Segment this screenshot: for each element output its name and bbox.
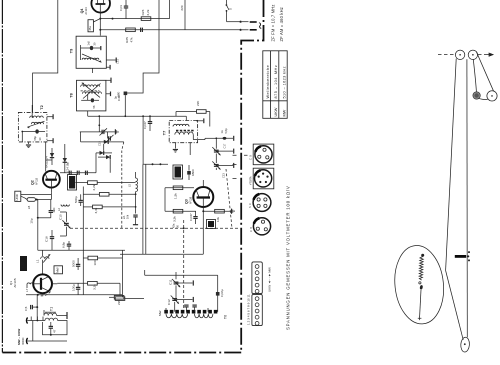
svg-text:510 – 1623 kHz: 510 – 1623 kHz [282, 66, 286, 98]
svg-text:500p: 500p [74, 196, 78, 203]
svg-text:AF116: AF116 [190, 196, 193, 204]
table Wellenbereiche [263, 51, 287, 119]
svg-text:C16: C16 [45, 236, 49, 242]
motor shaft knurled [473, 92, 480, 99]
capacitor C6047 [148, 116, 152, 131]
antenna terminal 1 [26, 318, 27, 324]
wire T2 right stubs [47, 114, 53, 143]
antenna terminal 2 [26, 338, 27, 344]
svg-text:AF115: AF115 [36, 177, 39, 185]
svg-text:UKW: UKW [15, 194, 19, 201]
node Q4a [99, 18, 101, 20]
cord right long [466, 59, 468, 337]
svg-text:R23: R23 [141, 9, 145, 15]
trimmer C11 [172, 272, 193, 299]
svg-text:T1: T1 [50, 307, 54, 311]
svg-text:T2: T2 [40, 105, 44, 109]
wire bus y250.3 [38, 249, 125, 251]
svg-text:Wellenbereiche: Wellenbereiche [266, 65, 270, 99]
chassis border bottom [2, 352, 241, 354]
svg-text:C13: C13 [222, 173, 226, 178]
svg-text:1A: 1A [220, 130, 224, 133]
node L8 [36, 199, 38, 201]
svg-text:1 2 3 4 5 6 7 8 9 10 11: 1 2 3 4 5 6 7 8 9 10 11 [247, 294, 251, 325]
node mains A [240, 21, 242, 23]
boxed label MW [54, 266, 63, 274]
svg-text:Q2: Q2 [31, 180, 35, 185]
svg-text:C17: C17 [223, 143, 227, 148]
cord P2 to shaft [473, 59, 476, 91]
svg-text:2A: 2A [122, 216, 126, 219]
svg-text:0,01: 0,01 [119, 5, 123, 11]
connector strip lower [252, 294, 262, 325]
node bus1 [124, 115, 126, 117]
dial axis dashed [438, 54, 454, 56]
svg-text:220: 220 [196, 101, 200, 106]
svg-text:5,6p: 5,6p [224, 128, 228, 134]
capacitor C30 [124, 92, 128, 96]
svg-text:S C: S C [249, 203, 252, 208]
node ant3 [37, 320, 39, 322]
wire v83.3 [82, 187, 84, 295]
svg-text:1,5k: 1,5k [174, 193, 178, 199]
resistor R3k3b [173, 209, 183, 213]
pulley P2 [468, 50, 477, 59]
wire y211.2 right [203, 210, 230, 212]
wire bus y116.2 [88, 115, 187, 117]
svg-text:3,3k: 3,3k [93, 284, 97, 290]
boxed label dark ZF [173, 165, 183, 179]
wire vertical x169.5 [169, 0, 171, 19]
dashed shield v [122, 142, 124, 228]
node ant [37, 294, 39, 296]
node mains B [240, 29, 242, 31]
resistor Rleft edge [115, 297, 144, 301]
svg-text:3,3k: 3,3k [173, 216, 177, 222]
wire T9 right pin [106, 58, 116, 63]
wire C30 down to bus [124, 95, 126, 116]
resistor R220 [176, 110, 210, 117]
node mech [183, 227, 185, 229]
wire y21.7 [227, 21, 241, 23]
wire staircase from top [125, 0, 159, 93]
wire T2 to D4 [46, 159, 52, 161]
trimmer C15 [100, 128, 108, 135]
trimmer C12 [171, 296, 194, 312]
trimmer C14 [106, 132, 114, 142]
capacitor C100u [76, 283, 80, 294]
drive drum ellipse [460, 337, 470, 352]
transformer T2 [18, 105, 47, 142]
svg-text:C31: C31 [116, 59, 120, 64]
svg-text:6,8p: 6,8p [62, 242, 66, 248]
wire v143 down [142, 116, 144, 164]
node bus4 [149, 115, 151, 117]
svg-text:3,3k: 3,3k [94, 207, 98, 213]
svg-text:UKW: UKW [274, 107, 278, 116]
capacitor C16 [50, 230, 54, 250]
wire v122.4 lower [121, 250, 123, 297]
wire switch down [226, 12, 228, 22]
spring end hook [419, 282, 421, 284]
svg-text:C11: C11 [169, 279, 173, 285]
wire T7 to trimmers [193, 139, 205, 141]
transistor Q1 [33, 274, 57, 293]
wire Q3 emitter down [202, 207, 204, 254]
boxed label 45a [88, 20, 94, 32]
svg-text:C B: C B [250, 227, 253, 232]
capacitor C047b [149, 116, 151, 122]
wire y187.8 [165, 187, 194, 189]
svg-text:10p: 10p [30, 218, 34, 223]
svg-text:C14 18p: C14 18p [66, 162, 70, 172]
cord end mark [418, 317, 422, 321]
wire y164.2 nodes [143, 163, 168, 165]
wire v37.8 [37, 200, 39, 251]
spring coil [419, 257, 423, 281]
svg-text:56p: 56p [33, 136, 37, 141]
cord P3 to shaft [479, 98, 488, 99]
cord in detail [420, 290, 421, 317]
svg-text:0,5: 0,5 [24, 306, 28, 311]
svg-text:MW: MW [282, 109, 286, 116]
svg-text:0,02μ: 0,02μ [220, 289, 224, 297]
diode D5 vertical [63, 144, 67, 173]
svg-text:L1: L1 [36, 259, 40, 263]
svg-text:680: 680 [117, 92, 121, 97]
node j1 [37, 217, 39, 219]
cord left long [446, 59, 457, 271]
svg-text:100μ: 100μ [72, 284, 76, 291]
svg-text:MD: MD [52, 207, 56, 213]
wire vertical x185 [184, 0, 186, 30]
capacitor C047c [193, 211, 197, 224]
svg-text:S: S [229, 8, 233, 10]
wire Q3 top [202, 180, 204, 187]
mech dashes C13 [226, 169, 232, 228]
diode D4 [50, 148, 54, 165]
DIN socket 3 [253, 194, 271, 212]
wire T7 top stub [196, 118, 203, 123]
boxed label dark AM [68, 175, 77, 191]
svg-text:#TO/TA: #TO/TA [250, 176, 253, 185]
DIN socket 1 [255, 146, 272, 163]
capacitor C29 [141, 28, 143, 32]
svg-text:T7: T7 [163, 131, 167, 135]
boxed label L23 [20, 256, 27, 271]
wire C10 top [60, 212, 66, 236]
svg-text:T9: T9 [70, 49, 74, 53]
mains prong 2 [242, 29, 257, 31]
resistor R23 [141, 17, 151, 21]
boxed label dark ZF2 [207, 220, 216, 229]
wire y275.2 [145, 270, 218, 312]
node bus3 [98, 115, 100, 117]
DIN socket 4 [253, 218, 270, 235]
wire top-left vertical [33, 0, 58, 112]
wire v80.6 [80, 132, 82, 142]
diode D3 [98, 155, 110, 159]
wire v145.8 [145, 164, 147, 254]
capacitor C02 [216, 292, 220, 296]
transistor Q2 [43, 171, 60, 192]
diode D6 [104, 140, 108, 144]
capacitor 6.8p [67, 241, 71, 250]
svg-text:C B: C B [250, 155, 253, 160]
ground R10k [230, 209, 234, 214]
svg-text:0,047: 0,047 [143, 121, 147, 129]
svg-text:AF114: AF114 [85, 7, 88, 15]
svg-text:ZF FM = 10,7 MHz: ZF FM = 10,7 MHz [270, 4, 275, 41]
T6 winding 1 [166, 314, 188, 318]
shield arc Q1 [41, 292, 51, 296]
node Q4b [99, 29, 101, 31]
wire D2 links [96, 144, 110, 173]
node bus2 [142, 115, 144, 117]
capacitor C5000 [76, 258, 80, 270]
svg-text:45a: 45a [88, 26, 92, 31]
wire v120 [119, 283, 121, 294]
svg-text:C12: C12 [167, 299, 171, 305]
wire bus y18.6 [100, 18, 169, 20]
mains prong 1 [242, 21, 257, 23]
svg-text:2,2k: 2,2k [146, 9, 150, 15]
capacitor C6800 [187, 165, 191, 180]
resistor R10k [215, 209, 225, 213]
DIN socket 2 box [253, 168, 274, 189]
svg-text:MW: MW [56, 267, 60, 273]
svg-text:10k: 10k [216, 217, 220, 222]
spring end bead [419, 285, 423, 290]
svg-text:L 23: L 23 [21, 262, 25, 268]
wire Q2 collector [45, 160, 47, 172]
wire UKW to Q2 [21, 194, 52, 196]
resistor R9 [83, 256, 122, 260]
pointer clip [467, 251, 470, 261]
wire v165 bracket [164, 188, 166, 211]
inductor L8 [21, 196, 52, 201]
svg-text:MW: MW [158, 310, 162, 316]
pin marks strip [31, 317, 43, 321]
boxed label UKW [15, 191, 21, 201]
DIN socket 2 [255, 170, 272, 187]
capacitor 5p6 [215, 136, 233, 141]
capacitor ant [31, 305, 38, 309]
svg-text:1n5: 1n5 [87, 41, 91, 46]
switch S [226, 0, 230, 12]
wire Q2 emitter down [50, 192, 52, 199]
capacitor C47 [49, 322, 53, 336]
transformer T7 [169, 121, 197, 156]
svg-text:AF105: AF105 [13, 278, 17, 287]
wire T8 right pin top [106, 78, 111, 83]
svg-text:0,047: 0,047 [189, 213, 193, 221]
dial axis arrow [487, 53, 493, 56]
drum center dot [464, 343, 466, 345]
resistor R25 [126, 28, 136, 32]
inductor L1 [41, 250, 51, 274]
transistor Q3 [193, 187, 213, 207]
svg-text:SPANNUNGEN GEMESSEN MIT VOL: SPANNUNGEN GEMESSEN MIT VOLTMETER 100 kΩ… [286, 185, 291, 330]
connector strip upper [252, 262, 262, 294]
cord P2 to P3 outer [476, 52, 493, 92]
svg-text:C15: C15 [98, 141, 102, 146]
transformer T1 secondary [43, 318, 68, 335]
mech link dashed horizontal [70, 227, 240, 229]
svg-text:875 – 104 MHz: 875 – 104 MHz [274, 65, 278, 99]
resistor R7 [83, 193, 136, 197]
ground T2 [26, 145, 31, 148]
svg-text:L5: L5 [128, 183, 132, 187]
trimmer C17 [212, 138, 233, 163]
inductor L5 [136, 172, 138, 214]
svg-text:5000: 5000 [72, 260, 76, 267]
detail ellipse spring [391, 243, 447, 326]
wire label diag to node [93, 19, 100, 22]
capacitor C9 [38, 200, 53, 218]
T6 winding stubs [166, 307, 208, 312]
mech link dashed vertical [183, 220, 185, 312]
transformer T1 primary [44, 310, 67, 319]
svg-text:42a: 42a [172, 223, 176, 228]
svg-text:C10: C10 [59, 214, 63, 220]
DIN stub marks [233, 155, 248, 178]
wire antenna vertical [33, 295, 37, 341]
svg-text:47k: 47k [130, 37, 134, 42]
wire bus y254.2 [120, 253, 203, 255]
capacitor C28 [124, 6, 128, 8]
inductor L2 [57, 205, 69, 212]
cord left lower diagonal [446, 271, 464, 340]
ferrite rod T6 [164, 310, 219, 314]
transformer T8 [77, 80, 106, 111]
svg-text:6800: 6800 [191, 169, 195, 176]
resistor R1k5 [173, 186, 183, 190]
wire T9 bottom stub [92, 68, 94, 73]
chassis border left [1, 0, 3, 353]
AC symbol [258, 23, 263, 29]
ground trimmer row [115, 129, 118, 134]
resistor R6 [76, 181, 136, 185]
node Q3 emitter [202, 210, 204, 212]
wire T8 right pin mid [106, 92, 111, 97]
svg-text:Q4: Q4 [80, 9, 84, 14]
transformer T9 [76, 36, 106, 68]
svg-text:L8: L8 [27, 206, 31, 210]
wire T9 right pin 2 [106, 65, 110, 70]
trimmer C13 [212, 161, 233, 170]
capacitor L5 gnd [133, 215, 138, 225]
wire y29.8 [100, 29, 240, 31]
inductor L7 [27, 283, 33, 288]
svg-text:10k: 10k [126, 214, 130, 219]
capacitor C500 [79, 194, 83, 206]
svg-text:D4: D4 [45, 156, 49, 160]
trimmer C10 [62, 212, 70, 236]
svg-text:47: 47 [53, 329, 57, 333]
svg-text:2,2k: 2,2k [92, 184, 96, 190]
resistor R8 [83, 205, 136, 209]
wire v142.9 [142, 164, 144, 254]
svg-text:AA112: AA112 [45, 160, 49, 168]
caps row y172.8 [60, 171, 96, 175]
svg-text:UKW ◄– –► MW: UKW ◄– –► MW [268, 267, 272, 292]
DIN socket 1 box [253, 144, 274, 165]
pulley P1 [455, 50, 464, 59]
wire v209.8 [209, 112, 211, 127]
svg-text:T8: T8 [70, 93, 74, 97]
wire Q4 emitter down [99, 4, 101, 36]
spring hook top [421, 254, 424, 257]
pointer bar [455, 255, 466, 258]
wire T2 bottom to Q2 [29, 142, 46, 160]
svg-text:100: 100 [93, 260, 97, 265]
discriminator diodes [96, 152, 112, 154]
svg-text:220: 220 [180, 5, 184, 10]
svg-text:Q3: Q3 [185, 199, 189, 204]
resistor R3k3c [88, 282, 98, 286]
node ant2 [36, 306, 38, 308]
chassis border right/top jog [241, 0, 263, 353]
diode D2 [100, 151, 104, 155]
svg-text:L7: L7 [25, 288, 29, 292]
wire T8 bottom stub [87, 111, 89, 116]
T6 winding 2 [195, 314, 213, 318]
trimmer row y131.9 [80, 116, 115, 132]
cap ticks above T6 [184, 305, 197, 307]
wire diode row y141.9 [81, 141, 124, 143]
svg-text:300Ω: 300Ω [21, 337, 25, 345]
wire bus y294.7 [26, 294, 122, 296]
wire y297.3 resistor [109, 296, 124, 300]
wire y211.2 left [165, 210, 196, 212]
wire v186.3 [185, 116, 187, 120]
svg-text:R25: R25 [125, 37, 129, 43]
transistor Q4 [91, 0, 110, 13]
pulley P3 [487, 91, 497, 101]
node R23a [112, 18, 114, 20]
svg-text:ZF AM = 460 kHz: ZF AM = 460 kHz [279, 7, 284, 41]
wire y283.3 [57, 282, 120, 284]
svg-text:T6: T6 [224, 315, 228, 319]
